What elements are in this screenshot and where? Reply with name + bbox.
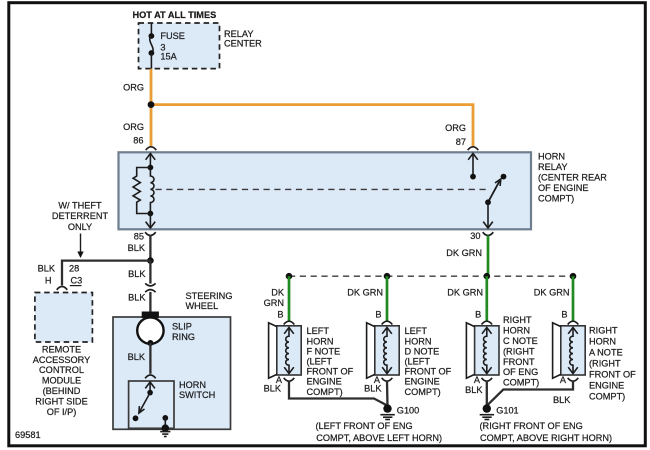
terminal cup 85 [145,232,156,235]
svg-text:RELAY: RELAY [224,29,253,39]
svg-text:(LEFT: (LEFT [307,357,333,367]
wire ORG from fuse to junction [150,69,153,105]
svg-text:RELAY: RELAY [538,162,567,172]
terminal cap module [57,287,68,290]
svg-text:HORN: HORN [307,336,334,346]
svg-text:FRONT OF: FRONT OF [405,367,452,377]
wire DK GRN relay 30 down [487,236,490,277]
svg-text:OF ENG: OF ENG [503,367,538,377]
svg-text:FRONT OF: FRONT OF [589,369,636,379]
relay switch contact from 87 [468,153,478,179]
svg-text:86: 86 [133,135,143,145]
svg-text:FRONT OF: FRONT OF [307,367,354,377]
horn switch SW box [129,381,174,428]
bus dashed distribution wire [289,275,573,277]
svg-text:ORG: ORG [123,122,144,132]
label W/ THEFT DETERRENT ONLY [52,200,109,232]
svg-text:B: B [475,309,481,319]
svg-text:COMPT): COMPT) [503,378,539,388]
label RIGHT HORN A NOTE [589,325,636,401]
svg-text:(RIGHT: (RIGHT [589,358,621,368]
terminal cap horn switch [145,375,156,378]
inline connector [145,283,155,292]
svg-text:BLK: BLK [264,383,282,393]
svg-text:LEFT: LEFT [405,326,428,336]
horn switch contacts [133,382,169,428]
wire BLK slip ring to horn switch [149,343,151,374]
svg-text:A NOTE: A NOTE [589,347,623,357]
svg-text:D NOTE: D NOTE [405,346,440,356]
wire BLK to slip ring [149,292,151,312]
svg-text:COMPT): COMPT) [307,387,343,397]
svg-text:FRONT: FRONT [503,357,535,367]
label G101 location [480,421,613,443]
svg-text:DK GRN: DK GRN [446,248,482,258]
node dot 2 [384,273,391,280]
svg-text:DETERRENT: DETERRENT [52,211,109,221]
wire BLK horn 1 to G100 [289,381,388,407]
svg-text:30: 30 [470,231,480,241]
svg-text:COMPT): COMPT) [405,387,441,397]
svg-text:RIGHT: RIGHT [503,315,532,325]
svg-text:B: B [277,309,283,319]
svg-text:BLK: BLK [128,269,146,279]
svg-text:BLK: BLK [465,385,483,395]
svg-text:ORG: ORG [123,82,144,92]
svg-text:ACCESSORY: ACCESSORY [33,355,91,365]
svg-text:COMPT): COMPT) [538,194,574,204]
node dot 3 [484,273,491,280]
svg-text:(LEFT FRONT OF ENG: (LEFT FRONT OF ENG [316,421,413,431]
svg-text:OF ENGINE: OF ENGINE [538,183,589,193]
svg-text:B: B [375,309,381,319]
svg-text:RIGHT: RIGHT [589,325,618,335]
ground G101 [480,404,519,419]
remote accessory control module box (dashed) [35,293,93,343]
relay switch blade to 30 [483,174,506,228]
svg-text:COMPT): COMPT) [589,391,625,401]
svg-text:(LEFT: (LEFT [405,357,431,367]
svg-text:(CENTER REAR: (CENTER REAR [538,173,607,183]
relay resistor (parallel) [133,168,150,214]
pointer arrow from label [77,234,83,259]
horn 1 left horn F note [269,321,302,381]
svg-text:COMPT, ABOVE LEFT HORN): COMPT, ABOVE LEFT HORN) [316,433,442,443]
relay coil branch [146,153,156,228]
svg-text:BLK: BLK [38,263,56,273]
svg-text:28: 28 [69,264,79,274]
svg-text:B: B [561,309,567,319]
fuse block box (relay center) [139,23,220,69]
label G100 location [316,421,443,443]
svg-text:ORG: ORG [445,123,466,133]
svg-text:GRN: GRN [264,298,284,308]
svg-text:HORN: HORN [179,380,206,390]
svg-text:BLK: BLK [128,292,146,302]
wire DK GRN drop 3 [485,276,488,321]
horn 4 right horn A note [553,321,586,381]
svg-text:C3: C3 [71,276,83,286]
wire BLK horn 3 to G101 [486,381,488,407]
horn 2 left horn D note [367,321,400,381]
svg-text:(BEHIND: (BEHIND [43,386,81,396]
svg-text:A: A [474,375,481,385]
wire BLK 85 to junction [149,236,151,261]
label LEFT HORN F NOTE [307,326,354,397]
svg-text:W/ THEFT: W/ THEFT [58,200,102,210]
svg-text:G100: G100 [397,406,419,416]
svg-text:DK GRN: DK GRN [347,288,383,298]
wire BLK horn 4 to G101 [487,381,573,406]
svg-text:MODULE: MODULE [42,376,81,386]
svg-text:RIGHT SIDE: RIGHT SIDE [35,396,87,406]
svg-text:CONTROL: CONTROL [39,365,84,375]
node junction 85/BLK [147,257,154,264]
slip ring S1 [137,312,163,347]
svg-text:WHEEL: WHEEL [186,301,219,311]
node dot 1 [286,273,293,280]
label REMOTE ACCESSORY CONTROL MODULE [33,344,91,416]
svg-text:G101: G101 [496,406,518,416]
node junction orange [148,101,155,108]
terminal cap 87 [468,147,479,150]
wire ORG junction to relay 86 [150,105,153,147]
svg-text:(RIGHT FRONT OF ENG: (RIGHT FRONT OF ENG [480,421,583,431]
svg-text:15A: 15A [160,52,177,62]
ground at horn switch [160,424,170,436]
svg-text:HORN: HORN [538,151,565,161]
label LEFT HORN D NOTE [405,326,452,397]
svg-text:A: A [560,375,567,385]
svg-text:DK: DK [271,288,285,298]
terminal cap 86 [146,147,157,150]
svg-text:ENGINE: ENGINE [307,377,342,387]
ground G100 [380,404,419,419]
wire branch to C3 connector [62,261,150,286]
svg-text:FUSE: FUSE [160,31,185,41]
svg-text:DK GRN: DK GRN [534,288,570,298]
wire DK GRN drop 4 [572,276,575,321]
svg-text:BLK: BLK [128,243,146,253]
svg-text:SLIP: SLIP [172,322,192,332]
svg-text:ONLY: ONLY [68,222,92,232]
terminal cup 30 [483,232,494,235]
svg-text:(RIGHT: (RIGHT [503,346,535,356]
svg-text:HOT AT ALL TIMES: HOT AT ALL TIMES [133,10,217,20]
svg-text:STEERING: STEERING [186,291,233,301]
svg-text:LEFT: LEFT [307,326,330,336]
relay armature linkage (dashed) [156,188,488,190]
wire DK GRN drop 1 [288,276,291,321]
steering wheel box [113,317,231,429]
svg-text:BLK: BLK [364,383,382,393]
svg-text:BLK: BLK [128,352,146,362]
label HORN RELAY [538,151,607,203]
label RIGHT HORN C NOTE [503,315,539,387]
svg-text:HORN: HORN [503,326,530,336]
svg-text:F NOTE: F NOTE [307,346,341,356]
svg-text:ENGINE: ENGINE [589,380,624,390]
svg-text:ENGINE: ENGINE [405,377,440,387]
svg-text:BLK: BLK [553,395,571,405]
wire ORG junction to relay 87 [151,105,473,147]
svg-text:OF I/P): OF I/P) [47,407,77,417]
svg-text:SWITCH: SWITCH [179,390,215,400]
svg-text:87: 87 [456,137,466,147]
node dot 4 [570,273,577,280]
svg-text:RING: RING [172,332,195,342]
svg-text:DK GRN: DK GRN [447,288,483,298]
horn 3 right horn C note [466,321,499,381]
svg-text:COMPT, ABOVE RIGHT HORN): COMPT, ABOVE RIGHT HORN) [480,433,612,443]
relay K box [119,152,532,229]
wire DK GRN drop 2 [386,276,389,321]
fuse F3 15A [149,24,185,69]
svg-text:H: H [45,276,52,286]
svg-text:85: 85 [134,231,144,241]
wire BLK junction to inline connector [149,261,151,284]
svg-text:C NOTE: C NOTE [503,336,538,346]
svg-text:CENTER: CENTER [224,38,262,48]
svg-text:HORN: HORN [405,336,432,346]
svg-text:HORN: HORN [589,336,616,346]
svg-text:REMOTE: REMOTE [42,344,81,354]
svg-text:69581: 69581 [15,430,41,440]
wire BLK horn 2 to G100 [386,381,389,407]
